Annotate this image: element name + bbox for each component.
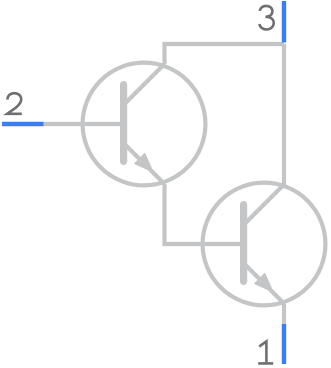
pin 2	[2, 122, 44, 126]
wire: pin 2 to Q1 base	[44, 122, 122, 126]
wire: Q1 collector up to top rail	[165, 44, 285, 64]
pin 2 label	[7, 93, 22, 114]
pin 3	[282, 1, 286, 43]
wire: Q2 emitter to pin 1	[282, 304, 286, 324]
pin 1 label	[258, 341, 273, 363]
pin 3 label	[259, 6, 273, 30]
pin 1	[282, 324, 286, 364]
wire: Q1 emitter to Q2 base	[165, 184, 242, 244]
wire: top rail down to Q2 collector	[282, 44, 286, 185]
transistor Q1	[83, 63, 206, 186]
transistor Q2	[203, 183, 326, 306]
